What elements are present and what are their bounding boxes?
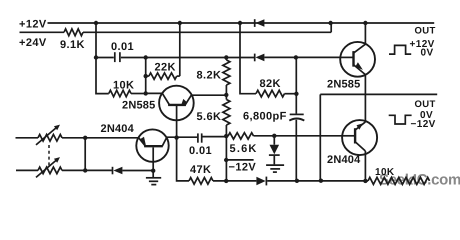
svg-text:0V: 0V (421, 48, 434, 59)
svg-text:2N404: 2N404 (101, 123, 135, 135)
svg-text:10K: 10K (375, 167, 395, 178)
svg-text:OUT: OUT (415, 99, 436, 110)
svg-text:47K: 47K (190, 164, 211, 176)
svg-text:2N585: 2N585 (327, 79, 360, 91)
svg-text:5.6K: 5.6K (230, 143, 258, 155)
svg-text:5.6K: 5.6K (197, 111, 222, 123)
svg-text:8.2K: 8.2K (197, 70, 222, 82)
svg-text:9.1K: 9.1K (60, 39, 85, 51)
svg-text:−12V: −12V (229, 161, 257, 173)
svg-text:0.01: 0.01 (189, 145, 212, 157)
svg-text:22K: 22K (155, 62, 176, 74)
svg-text:0.01: 0.01 (111, 41, 134, 53)
svg-text:6,800pF: 6,800pF (243, 110, 287, 122)
svg-text:2N585: 2N585 (122, 100, 155, 112)
svg-text:−12V: −12V (411, 119, 436, 130)
svg-text:10K: 10K (113, 79, 134, 91)
svg-text:82K: 82K (260, 78, 281, 90)
svg-text:2N404: 2N404 (327, 154, 361, 166)
svg-text:+12V: +12V (19, 18, 47, 30)
svg-text:OUT: OUT (415, 25, 436, 36)
svg-text:+24V: +24V (19, 37, 47, 49)
